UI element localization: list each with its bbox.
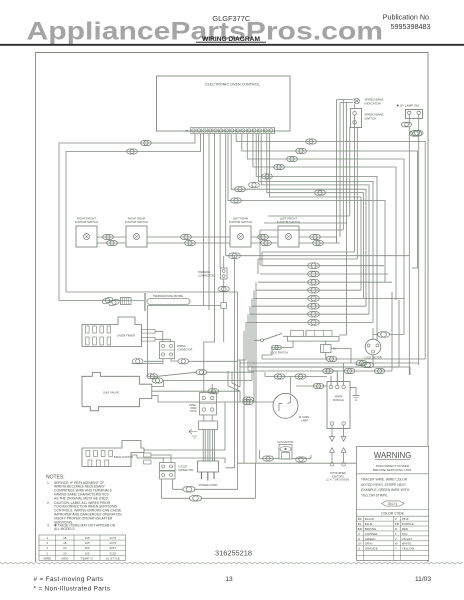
svg-text:EXAMPLE: GREEN WIRE WITH: EXAMPLE: GREEN WIRE WITH [361, 488, 410, 492]
electronic oven control [157, 76, 291, 131]
svg-text:TRACER WIRE. WIRE COLOR: TRACER WIRE. WIRE COLOR [361, 478, 408, 482]
svg-text:VIOLET: VIOLET [402, 537, 413, 541]
wire gauge table [39, 535, 126, 561]
svg-text:TEMPERATURE PROBE: TEMPERATURE PROBE [153, 294, 183, 298]
small boxes left of outlet connector [144, 453, 152, 457]
wire EOC to right bus [270, 134, 362, 291]
svg-text:NOTED FIRST, STRIPE NEXT.: NOTED FIRST, STRIPE NEXT. [361, 483, 407, 487]
svg-text:WIRE: WIRE [191, 408, 197, 410]
ignitor switch LEFT FRONT [278, 226, 299, 247]
svg-text:105: 105 [84, 536, 89, 540]
connector lamp left [243, 399, 254, 404]
wire EOC to right bus [231, 134, 366, 307]
svg-text:ALL MODELS.: ALL MODELS. [54, 527, 76, 531]
connector [308, 303, 320, 309]
ground symbol at spark module [350, 388, 360, 401]
connector [308, 263, 320, 269]
connector above motor [377, 332, 389, 338]
connector [308, 296, 320, 302]
wire EOC drop 1 [202, 134, 204, 306]
wire lamp switch runs down [409, 127, 418, 375]
svg-text:V: V [395, 537, 397, 541]
diagram border [36, 53, 429, 563]
wire EOC to right bus [253, 134, 396, 301]
wire motor bottom [356, 355, 373, 365]
panel wire connector [200, 393, 217, 416]
connector lower [326, 356, 337, 361]
chassis ground arrow [189, 429, 197, 438]
wire lamp switch right leg [418, 115, 420, 132]
EOC terminal strip P1 [191, 128, 275, 134]
wire gas valve right outputs [152, 381, 252, 403]
wire right stub [412, 267, 418, 269]
junction square [221, 303, 227, 309]
wire switch legs [343, 100, 357, 260]
connector below motor [361, 362, 373, 368]
wire mid row [252, 305, 366, 307]
svg-text:YELLOW STRIPE.: YELLOW STRIPE. [361, 493, 389, 497]
wire lamp switch left leg [408, 115, 410, 125]
wire EOC left run lower [66, 134, 238, 490]
svg-text:WIRE: WIRE [43, 556, 51, 560]
connector [308, 311, 320, 317]
spark module [327, 382, 350, 429]
svg-text:CONN: CONN [190, 411, 197, 413]
connector [141, 140, 152, 145]
wire bus row C [248, 300, 399, 367]
wire gas valve top connector run [148, 372, 255, 376]
small relay box [321, 345, 332, 353]
svg-text:316255218: 316255218 [215, 549, 252, 558]
wire LF switch to right [299, 237, 340, 243]
wire EOC drop 4 (to harness connector) [220, 134, 224, 269]
wire below wiring connector [132, 359, 179, 364]
wire mid row [246, 321, 373, 323]
svg-text:IGNITOR SWITCH: IGNITOR SWITCH [229, 220, 252, 224]
oven timer [82, 317, 142, 347]
svg-text:✱ OVEN: ✱ OVEN [299, 415, 309, 419]
gas valve [82, 373, 152, 411]
svg-text:✱ OV LAMP SW: ✱ OV LAMP SW [397, 104, 419, 108]
svg-text:INDICATOR: INDICATOR [365, 102, 382, 106]
wire mid row [250, 313, 369, 315]
wire relay feeds [326, 341, 351, 363]
wire EOC to right bus [261, 134, 369, 315]
connector [147, 374, 158, 379]
connector [315, 190, 326, 195]
lock switch lever [263, 334, 282, 341]
wire motor top [373, 310, 404, 337]
wire panel connector verticals [204, 382, 212, 421]
wire lever feed [254, 336, 288, 340]
door lock motor [365, 339, 381, 355]
svg-text:P: P [395, 517, 397, 521]
wire EOC to right bus [256, 134, 377, 342]
spark gap arrows [332, 425, 344, 436]
svg-text:# = Fast-moving Parts: # = Fast-moving Parts [34, 576, 104, 583]
svg-text:LAMP: LAMP [301, 419, 308, 423]
svg-text:CONNECTOR: CONNECTOR [198, 275, 214, 278]
wire bundle joins down-left [240, 360, 252, 371]
connector top right [409, 131, 421, 137]
svg-text:WARNING: WARNING [374, 451, 411, 460]
connector on row B [344, 368, 355, 373]
svg-text:5995398483: 5995398483 [391, 22, 431, 31]
connector row above module [274, 374, 285, 379]
svg-text:13: 13 [225, 576, 233, 583]
power cord cable [203, 430, 214, 462]
power cord plug [198, 461, 219, 472]
wire EOC to right bus [228, 134, 385, 283]
speed bake switch S1 [351, 109, 362, 128]
svg-text:BROWN: BROWN [365, 527, 377, 531]
wiring connector [160, 342, 175, 359]
svg-text:IGNITOR SWITCH: IGNITOR SWITCH [125, 220, 148, 224]
ignitor switch RIGHT FRONT [76, 226, 97, 247]
wire lock bar bottom [262, 341, 293, 355]
ignitor switch LEFT REAR [230, 226, 251, 247]
wire junction drop [147, 306, 149, 377]
svg-text:TAN: TAN [402, 532, 408, 536]
connector [229, 253, 241, 259]
svg-text:3173: 3173 [109, 541, 116, 545]
wire EOC to right bus [242, 134, 418, 269]
connector [249, 182, 260, 187]
wire central bundle [244, 230, 262, 463]
svg-text:IGNITOR SWITCH: IGNITOR SWITCH [75, 220, 98, 224]
svg-text:BLACK: BLACK [365, 517, 375, 521]
wire EOC drop 2 [208, 134, 210, 311]
wire EOC left run upper [59, 134, 195, 301]
svg-text:20: 20 [63, 551, 67, 555]
wire lower row 1 [262, 333, 425, 359]
connector [308, 320, 320, 326]
wire junction west [148, 305, 221, 307]
svg-text:3.: 3. [47, 523, 50, 527]
oven lamp [273, 393, 298, 418]
wire EOC drop 6 (long vertical to power area) [226, 256, 235, 468]
svg-text:18: 18 [63, 541, 67, 545]
svg-text:WHITE: WHITE [402, 542, 412, 546]
svg-text:Publication No.: Publication No. [383, 13, 431, 22]
connector fan left/right [263, 456, 274, 461]
speed bake indicator DS1 [354, 98, 359, 103]
svg-text:BAKE IGNITOR: BAKE IGNITOR [114, 455, 133, 459]
svg-text:SWITCH: SWITCH [365, 117, 377, 121]
svg-text:ORANGE: ORANGE [365, 547, 378, 551]
wire EOC to right bus [267, 134, 364, 299]
connector [235, 187, 246, 192]
svg-text:3173: 3173 [109, 536, 116, 540]
tracer wire symbol GN-YL [382, 501, 405, 506]
wire mid row [262, 265, 384, 267]
connector lamp to module [313, 383, 324, 388]
wire fan motor sides [260, 450, 312, 459]
svg-text:11/03: 11/03 [415, 576, 431, 583]
svg-text:BN: BN [333, 348, 337, 351]
connector [218, 286, 229, 291]
wire between RR and LR switches [147, 237, 230, 243]
wire mid row [254, 297, 404, 299]
connector on lamp switch leg [401, 122, 411, 127]
connector [308, 287, 320, 293]
wire bus row B [252, 292, 392, 371]
connector [127, 149, 138, 154]
svg-text:AWG: AWG [61, 556, 69, 560]
wire between LR and LF switches [251, 237, 278, 243]
svg-text:* = Non-Illustrated Parts: * = Non-Illustrated Parts [34, 586, 111, 593]
svg-text:3132: 3132 [109, 551, 116, 555]
svg-text:105: 105 [84, 551, 89, 555]
connector [296, 148, 307, 153]
connector pair [258, 234, 269, 239]
wire power cord rows [162, 463, 256, 498]
svg-text:BL: BL [358, 522, 362, 526]
svg-text:BEFORE SERVICING UNIT.: BEFORE SERVICING UNIT. [373, 468, 412, 472]
wire module top feeds [331, 363, 344, 385]
svg-text:CONNECTOR: CONNECTOR [177, 349, 193, 352]
svg-text:FAN MOTOR: FAN MOTOR [278, 440, 294, 444]
wire lower row 2 [240, 362, 419, 364]
svg-text:GY: GY [358, 542, 362, 546]
top burner ignitor leads [332, 452, 344, 462]
wire mid row [256, 289, 361, 291]
connector [262, 174, 273, 179]
svg-text:20: 20 [63, 546, 67, 550]
wire EOC drop 3 [204, 134, 215, 383]
wire lamp feeds [240, 372, 327, 402]
wire speed bake bundle [337, 100, 350, 336]
wire mid row [260, 273, 388, 275]
wire crossing bundle [228, 360, 240, 402]
svg-text:1.: 1. [47, 481, 50, 485]
svg-text:CONNECTOR: CONNECTOR [178, 469, 194, 472]
connector [274, 164, 285, 169]
svg-text:T: T [395, 532, 397, 536]
ignitor switch RIGHT REAR [126, 226, 147, 247]
wire long row left [144, 360, 238, 362]
connector [231, 198, 242, 203]
svg-text:W: W [395, 542, 398, 546]
wire EOC to right bus [247, 134, 404, 311]
connector pair [181, 234, 192, 239]
wire bus row A [238, 359, 241, 361]
svg-text:GAS VALVE: GAS VALVE [103, 391, 119, 395]
header rule [0, 44, 464, 46]
timer output tabs [142, 330, 156, 334]
connector pair [310, 234, 321, 239]
wire timer to wiring connector [155, 331, 171, 341]
connector pair [103, 234, 114, 239]
lock switch assembly [288, 336, 340, 341]
svg-text:PINK: PINK [402, 517, 409, 521]
svg-text:ELECTRONIC OVEN CONTROL: ELECTRONIC OVEN CONTROL [205, 82, 259, 86]
wire mid row [258, 281, 392, 283]
wire lower row 3 [240, 360, 410, 375]
svg-text:COLOR CODE: COLOR CODE [381, 512, 405, 516]
svg-text:LOCK SWITCH: LOCK SWITCH [270, 351, 288, 355]
harness connector [221, 268, 228, 279]
svg-text:GREEN: GREEN [365, 537, 376, 541]
wire speed loop returns [258, 216, 357, 259]
svg-text:COPPER: COPPER [365, 532, 379, 536]
wire below harness connector [223, 279, 225, 342]
wire module top horiz [324, 371, 338, 385]
wire outlet connector tops [151, 455, 171, 463]
connector [308, 271, 320, 277]
svg-text:RED: RED [402, 527, 409, 531]
wire EOC drop 5 [225, 134, 227, 256]
svg-text:18: 18 [63, 536, 67, 540]
connector [308, 279, 320, 285]
wire between RF and RR switches [97, 237, 126, 243]
wire switch top joins [350, 126, 362, 129]
connector [132, 359, 143, 364]
connector under bar [271, 345, 281, 349]
wire top mid row [226, 255, 410, 257]
svg-text:(2, 4, 7 OR 5 EACH): (2, 4, 7 OR 5 EACH) [326, 479, 349, 482]
temperature probe [101, 300, 144, 302]
connector [306, 139, 317, 144]
wire bake ignitor outputs [131, 402, 225, 463]
wire EOC to right bus [236, 134, 425, 334]
connector module top [323, 368, 334, 373]
outlet connector [160, 463, 176, 471]
svg-text:AS THE ORIGINAL MUST BE USED.: AS THE ORIGINAL MUST BE USED. [54, 496, 109, 500]
svg-text:MODULE: MODULE [333, 399, 344, 402]
svg-text:OVEN TIMER: OVEN TIMER [117, 334, 135, 338]
svg-text:150: 150 [84, 546, 89, 550]
torn bottom edge [0, 562, 463, 564]
svg-text:GN-YL: GN-YL [388, 502, 398, 506]
wire indicator feeds [337, 100, 353, 103]
strain relief box [199, 421, 218, 430]
svg-text:BK: BK [358, 517, 362, 521]
svg-text:YELLOW: YELLOW [402, 547, 415, 551]
svg-text:Y: Y [395, 547, 397, 551]
connector on lamp switch right leg [411, 130, 423, 136]
svg-text:UL STYLE: UL STYLE [106, 556, 120, 560]
svg-text:GRAY: GRAY [365, 542, 373, 546]
svg-text:NOTES:: NOTES: [46, 474, 65, 480]
svg-text:POWER CORD: POWER CORD [199, 483, 218, 487]
svg-text:PANEL: PANEL [189, 404, 197, 407]
connector [287, 156, 298, 161]
svg-text:105: 105 [84, 541, 89, 545]
svg-text:TEMP °C: TEMP °C [81, 556, 94, 560]
svg-text:2.: 2. [47, 501, 50, 505]
bake ignitor [82, 441, 144, 467]
svg-text:BLUE: BLUE [365, 522, 373, 526]
svg-text:3257: 3257 [109, 546, 116, 550]
wire EOC to right bus [258, 134, 373, 323]
connector on motor bottom row [374, 368, 385, 373]
warning box [357, 447, 429, 561]
svg-text:PURPLE: PURPLE [402, 522, 414, 526]
wire bus row D (power) [238, 462, 357, 464]
connector power rows [183, 487, 195, 493]
